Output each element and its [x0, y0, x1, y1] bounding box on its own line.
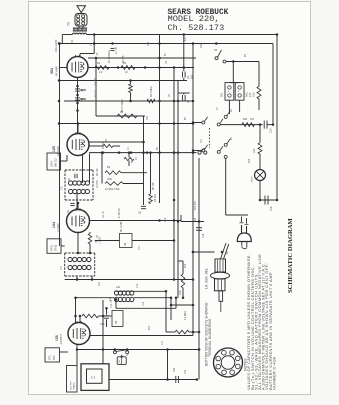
svg-text:R3 4.7 MEG: R3 4.7 MEG: [122, 99, 124, 112]
svg-text:R5 70K: R5 70K: [153, 182, 155, 190]
svg-text:+: +: [238, 89, 240, 93]
svg-text:470: 470: [249, 92, 252, 97]
svg-text:OSC: OSC: [107, 178, 112, 181]
svg-text:C17: C17: [162, 340, 164, 345]
svg-text:C20: C20: [185, 369, 187, 374]
svg-text:BA1: BA1: [221, 92, 224, 97]
svg-text:PILOT: PILOT: [252, 175, 254, 182]
svg-text:C12: C12: [143, 301, 145, 306]
svg-text:L1: L1: [91, 377, 95, 381]
svg-text:R16: R16: [185, 263, 187, 268]
svg-text:R4 10K: R4 10K: [97, 168, 99, 176]
svg-text:C1 .05: C1 .05: [116, 47, 118, 54]
svg-text:S2a: S2a: [148, 41, 150, 46]
svg-text:270: 270: [250, 118, 255, 121]
svg-text:R5 70K: R5 70K: [154, 194, 157, 202]
svg-text:C13: C13: [270, 128, 273, 133]
svg-text:C20: C20: [174, 367, 176, 372]
svg-text:BT2: BT2: [53, 355, 56, 360]
svg-text:R10: R10: [253, 92, 256, 97]
svg-text:1U4: 1U4: [52, 222, 56, 228]
svg-text:C14: C14: [203, 233, 205, 238]
svg-text:C14: C14: [165, 217, 167, 222]
svg-text:R16: R16: [179, 290, 182, 295]
svg-text:S3a: S3a: [201, 43, 203, 48]
svg-text:L8-200.60L: L8-200.60L: [206, 268, 210, 289]
svg-text:100: 100: [191, 74, 194, 79]
svg-text:I.F AMP: I.F AMP: [57, 223, 60, 232]
svg-text:C19: C19: [137, 283, 139, 288]
svg-text:3S4: 3S4: [50, 68, 54, 74]
svg-text:S1b: S1b: [147, 115, 149, 120]
svg-text:R11: R11: [243, 118, 248, 121]
svg-text:R14: R14: [249, 158, 251, 163]
svg-text:RF AMP: RF AMP: [55, 66, 59, 76]
svg-text:L2 OSC: L2 OSC: [97, 179, 99, 188]
svg-text:TERMINAL NUMBERING: TERMINAL NUMBERING: [208, 318, 212, 357]
svg-text:R1 2.2 MEG: R1 2.2 MEG: [109, 50, 111, 63]
svg-text:L3A: L3A: [98, 281, 101, 286]
svg-text:R15 47K: R15 47K: [195, 201, 197, 210]
svg-text:R12: R12: [253, 148, 256, 153]
svg-text:R2 47K: R2 47K: [123, 55, 125, 63]
svg-text:T3: T3: [67, 22, 71, 26]
svg-text:T3: T3: [59, 266, 63, 270]
svg-text:C10 .02: C10 .02: [111, 299, 113, 308]
svg-text:C16: C16: [270, 206, 273, 211]
svg-text:L3A: L3A: [116, 286, 121, 289]
svg-text:L5A LOOP: L5A LOOP: [54, 39, 58, 52]
svg-text:Ch. 528.173: Ch. 528.173: [168, 23, 225, 33]
svg-text:OUT PUT: OUT PUT: [71, 380, 73, 390]
svg-text:L2 OSC COIL: L2 OSC COIL: [105, 188, 120, 191]
svg-text:+: +: [228, 89, 230, 93]
svg-text:C3 .01: C3 .01: [95, 90, 97, 97]
svg-text:C9 .05: C9 .05: [103, 211, 105, 218]
svg-text:BT 81: BT 81: [51, 244, 54, 251]
svg-text:OUTPUT: OUTPUT: [60, 334, 63, 344]
svg-text:T2: T2: [60, 186, 64, 190]
svg-text:TRANS: TRANS: [73, 382, 76, 390]
svg-text:JW 4: JW 4: [51, 161, 54, 167]
svg-text:1K: 1K: [125, 71, 128, 74]
svg-text:DET-AVC: DET-AVC: [57, 146, 60, 156]
svg-text:2.2 MEG: 2.2 MEG: [185, 311, 187, 320]
svg-text:-: -: [228, 97, 229, 101]
svg-text:NUMBER C-41B: NUMBER C-41B: [271, 357, 276, 390]
svg-text:47K: 47K: [185, 36, 187, 41]
svg-text:R13: R13: [149, 325, 151, 330]
svg-text:R7 47K: R7 47K: [103, 141, 105, 149]
svg-text:1U5: 1U5: [52, 146, 56, 152]
svg-text:1S5: 1S5: [55, 335, 59, 341]
svg-text:IF 455 KC: IF 455 KC: [119, 207, 121, 218]
svg-text:SCHEMATIC DIAGRAM: SCHEMATIC DIAGRAM: [287, 217, 294, 293]
svg-text:R4 3 MEG: R4 3 MEG: [151, 86, 153, 97]
svg-text:C2 .05: C2 .05: [95, 78, 97, 85]
svg-text:BT 82: BT 82: [55, 244, 58, 251]
svg-text:WB CO: WB CO: [55, 158, 58, 167]
svg-text:-: -: [238, 97, 239, 101]
svg-text:BT1: BT1: [49, 355, 52, 360]
svg-text:R8 10 MEG: R8 10 MEG: [121, 220, 123, 232]
